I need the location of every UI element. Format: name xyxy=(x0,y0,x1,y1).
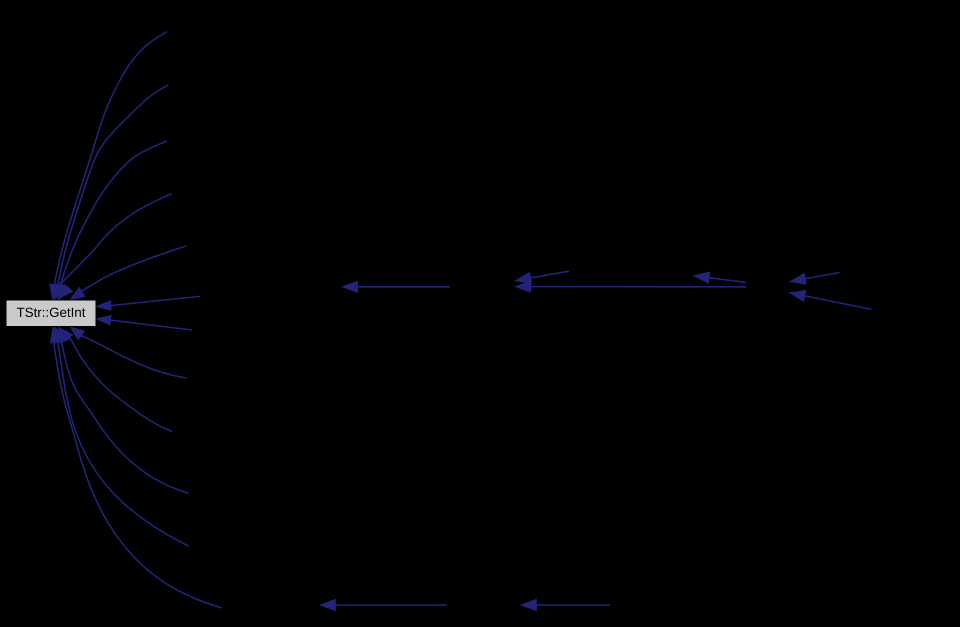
edge caller-9 to TStr::GetInt xyxy=(60,328,172,432)
edge caller-3 to TStr::GetInt xyxy=(58,141,167,301)
edge caller-12 to TStr::GetInt xyxy=(50,327,222,609)
edge far-right lower xyxy=(789,290,871,309)
edge far-right upper xyxy=(790,273,840,285)
edge caller-5 to TStr::GetInt xyxy=(70,246,186,300)
edge caller-8 to TStr::GetInt xyxy=(70,327,187,378)
edge caller-4 to TStr::GetInt xyxy=(57,194,172,299)
edge bottom-chain 2 xyxy=(521,599,611,611)
edge mid-chain into caller-6 node xyxy=(342,281,450,293)
edge caller-7 to TStr::GetInt xyxy=(96,315,192,330)
edge caller-6 to TStr::GetInt xyxy=(96,296,200,310)
node TStr::GetInt xyxy=(6,300,96,327)
edge caller-10 to TStr::GetInt xyxy=(58,327,188,494)
edge caller-1 to TStr::GetInt xyxy=(50,32,167,301)
edge caller-2 to TStr::GetInt xyxy=(54,85,169,301)
edge upper into mid node xyxy=(515,271,569,283)
edge into right node xyxy=(693,272,746,284)
edge bottom-chain 1 xyxy=(320,599,448,611)
edge long horizontal into mid node xyxy=(515,281,746,293)
edge caller-11 to TStr::GetInt xyxy=(54,327,188,547)
